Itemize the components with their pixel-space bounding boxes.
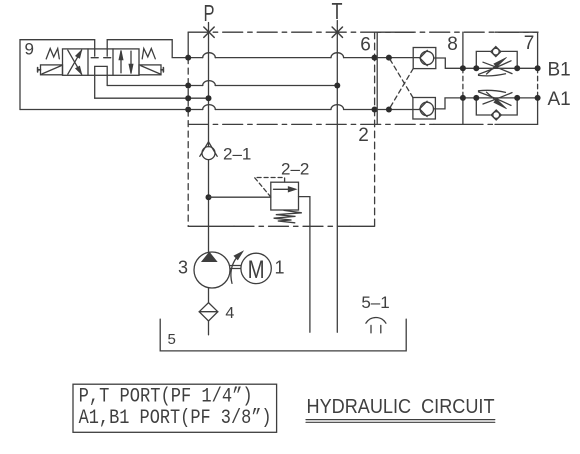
svg-text:P,T PORT(PF 1/4”): P,T PORT(PF 1/4”)	[79, 386, 253, 409]
relief valve 2-2 pilot line (dashed)	[255, 178, 285, 198]
port X mark at P	[204, 27, 214, 37]
wire B1 line	[463, 67, 538, 69]
wire line 3 (y=98.2)	[95, 97, 209, 99]
crossover bump line1 over P	[203, 53, 216, 58]
valve U9 right solenoid	[139, 65, 161, 75]
pump P3 circle	[194, 252, 230, 288]
wire line 4 (y=109.5)	[20, 109, 420, 111]
wire P vertical	[208, 23, 210, 253]
valve U9 centre position blocked port stubs	[91, 49, 111, 58]
svg-text:HYDRAULIC CIRCUIT: HYDRAULIC CIRCUIT	[307, 396, 495, 418]
junction node rail2/boundary	[185, 83, 191, 89]
junction node rail2/T vertical	[334, 83, 340, 89]
valve U9 right position up arrow	[120, 51, 122, 73]
relief valve 2-2 spring	[274, 210, 302, 222]
valve U9 right spring	[142, 49, 155, 59]
valve U9 left solenoid	[41, 65, 63, 75]
bypass check A1 diamond	[491, 110, 501, 120]
relief valve 2-2 body	[271, 182, 299, 210]
valve U9 centre position bridge	[95, 66, 108, 75]
junction node rail4/boundary	[185, 107, 191, 113]
CV-lower outlet jog	[434, 98, 463, 109]
svg-text:7: 7	[524, 33, 535, 54]
title underline double	[306, 420, 495, 423]
rotation arrow	[231, 257, 237, 283]
valve U9 left position crossed arrow 1	[68, 50, 82, 74]
throttle B1 arcs	[479, 61, 513, 76]
junction node A1 loop left	[473, 95, 479, 101]
svg-text:4: 4	[225, 305, 234, 322]
pilot check valve CV-lower box	[413, 98, 436, 120]
svg-text:6: 6	[360, 35, 371, 56]
svg-text:2–2: 2–2	[281, 160, 309, 179]
bypass check B1 ball	[492, 48, 499, 55]
CV-lower circle	[420, 102, 433, 115]
block 7 right edge	[537, 32, 539, 124]
wire A1 line	[463, 97, 538, 99]
throttle A1 arcs	[479, 90, 513, 105]
check valve 2-1 seat	[200, 142, 217, 157]
block 8 left edge	[376, 32, 378, 124]
block 2 bottom boundary	[188, 225, 234, 227]
valve U9 left position crossed arrow 2	[68, 50, 82, 74]
pilot check valve CV-upper box	[413, 48, 436, 69]
junction node rail1/pilot tap	[386, 55, 392, 61]
wire relief valve outlet to tank	[299, 197, 310, 333]
svg-text:2: 2	[358, 125, 369, 146]
throttle A1 bypass loop	[476, 98, 517, 115]
wire pump suction	[208, 288, 210, 303]
divider between blocks 8 and 7	[462, 32, 464, 124]
wire valve top-right port to rail 1	[107, 40, 188, 58]
CV-lower seat	[420, 101, 428, 116]
CV-upper seat	[420, 50, 428, 65]
junction node A1 loop right	[514, 95, 520, 101]
svg-text:5–1: 5–1	[361, 293, 389, 312]
wire valve bottom-left port to rail 3	[94, 75, 96, 98]
manifold block 6/2 left boundary (solid then dashed)	[187, 32, 189, 57]
wire filter suction stub	[208, 321, 210, 335]
drive shaft	[230, 266, 241, 269]
pump P3 flow triangle	[202, 253, 216, 262]
manifold block 6 top boundary (dash-dot)	[188, 31, 538, 33]
tank 5	[160, 319, 406, 351]
junction node B1 loop right	[514, 65, 520, 71]
throttle A1 adjust arrow	[487, 92, 496, 100]
junction node relief feed	[206, 194, 212, 200]
block 6 bottom boundary (dash-dot)	[188, 123, 434, 125]
wire relief valve feed	[209, 196, 271, 198]
wire T vertical	[336, 21, 338, 333]
svg-text:M: M	[248, 256, 265, 284]
svg-text:9: 9	[24, 40, 33, 59]
crossover bump line1 over T	[331, 53, 344, 58]
check valve 2-1 circle	[202, 147, 215, 160]
manifold block 2 right boundary (dashed)	[374, 32, 376, 226]
CV-upper circle	[420, 51, 433, 64]
port node A1	[535, 95, 541, 101]
filter F4 element line	[199, 311, 218, 313]
wire valve bottom-right port to rail 2	[106, 75, 108, 85]
wire line 1 (P rail y=57.6)	[188, 57, 420, 59]
junction node rail4/block2 right edge	[372, 107, 378, 113]
throttle B1 bypass loop	[476, 51, 517, 68]
block 8 bottom edge (solid part)	[434, 123, 463, 125]
pilot line to upper check valve (dashed)	[389, 69, 413, 110]
junction node B1/divider	[460, 65, 466, 71]
filter F4 diamond	[199, 303, 218, 321]
port node B1	[535, 65, 541, 71]
junction node B1 loop left	[473, 65, 479, 71]
svg-text:8: 8	[447, 34, 458, 55]
svg-text:3: 3	[178, 258, 188, 278]
block 8 top edge (solid part)	[377, 31, 413, 33]
solenoid valve U9 body	[63, 49, 140, 75]
crossover bump line4 over T	[331, 105, 344, 110]
bypass check A1 ball	[493, 112, 500, 119]
junction node A1/divider	[460, 95, 466, 101]
svg-text:A1: A1	[548, 89, 571, 110]
wire line 2 (y=85.5)	[107, 85, 337, 87]
svg-text:2–1: 2–1	[223, 145, 251, 164]
bypass check B1 diamond	[491, 47, 501, 57]
crossover bump line2 over P	[203, 81, 216, 86]
block 7 bottom edge (solid part)	[495, 123, 538, 125]
junction node rail4/pilot tap	[386, 107, 392, 113]
block 7 top edge (solid part)	[495, 31, 538, 33]
svg-text:A1,B1 PORT(PF 3/8”): A1,B1 PORT(PF 3/8”)	[79, 407, 272, 430]
svg-text:B1: B1	[548, 60, 571, 81]
port X mark at T	[332, 27, 342, 37]
crossover bump line4 over P	[203, 105, 216, 110]
motor M1 circle	[241, 253, 271, 283]
breather 5-1 legs	[371, 325, 381, 333]
wire valve top-left port to rail 4	[20, 40, 95, 110]
junction node rail3/P vertical	[206, 95, 212, 101]
svg-text:1: 1	[274, 258, 284, 278]
pilot line to lower check valve (dashed)	[389, 58, 413, 98]
CV-upper outlet jog	[434, 58, 463, 68]
svg-text:5: 5	[168, 331, 176, 348]
junction node rail1/boundary	[185, 55, 191, 61]
valve U9 left spring	[46, 49, 59, 59]
note box	[73, 384, 277, 432]
valve U9 right position down arrow	[130, 51, 132, 73]
breather 5-1 arc	[366, 317, 386, 323]
relief valve 2-2 flow arrow	[274, 188, 290, 190]
junction node rail3/boundary	[185, 95, 191, 101]
junction node rail1/block2 right edge	[372, 55, 378, 61]
throttle B1 adjust arrow	[487, 66, 496, 74]
